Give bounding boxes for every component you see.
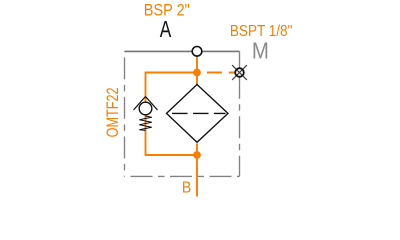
svg-text:M: M bbox=[252, 37, 269, 63]
svg-text:A: A bbox=[160, 16, 172, 42]
svg-text:B: B bbox=[182, 179, 191, 196]
svg-text:OMTF22: OMTF22 bbox=[104, 87, 122, 137]
